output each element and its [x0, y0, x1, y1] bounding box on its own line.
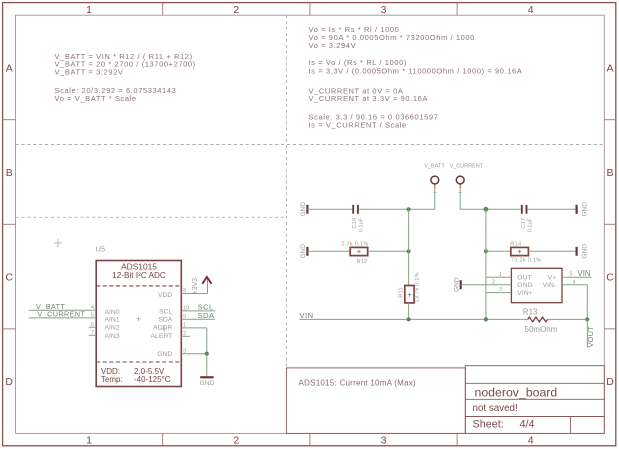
junction row2 at R12 column: [407, 249, 411, 253]
pin stub AIN2: [89, 326, 96, 328]
wire ADDR drop: [206, 328, 208, 354]
wire op-amp VIN- drop: [586, 285, 588, 320]
anchor cross: [54, 239, 62, 247]
wire op-amp VIN- right: [562, 284, 587, 286]
IC U5 ADS1015 body: [96, 261, 181, 387]
frame column tick bottom 3|4: [456, 433, 458, 445]
svg-text:GND: GND: [517, 282, 532, 289]
resistor R11 anchor cross: [408, 293, 412, 297]
svg-text:U5: U5: [96, 245, 106, 254]
svg-text:OUT: OUT: [517, 275, 531, 282]
wire VIN line right: [548, 318, 588, 320]
svg-text:4/4: 4/4: [520, 418, 535, 430]
wire row1 C17 to gnd: [528, 208, 577, 210]
wire op-amp OUT: [486, 276, 512, 278]
wire VDD pin 8: [181, 293, 207, 295]
svg-text:4: 4: [528, 4, 534, 16]
svg-text:A: A: [606, 62, 613, 74]
IC U5 lower dashed divider: [96, 361, 181, 363]
ADDR anchor cross: [161, 326, 167, 332]
wire VIN line left: [300, 318, 528, 320]
svg-text:A: A: [6, 62, 13, 74]
svg-text:V+: V+: [548, 275, 557, 282]
junction ADC ground: [205, 352, 209, 356]
junction row1 at op-amp column: [484, 207, 489, 212]
ground right row2 bar: [575, 247, 577, 256]
wire ADDR pin 1: [181, 327, 207, 329]
wire op-amp VIN+: [486, 292, 512, 294]
svg-text:+3V3: +3V3: [192, 278, 199, 295]
svg-text:ADS1015: Current 10mA (Max): ADS1015: Current 10mA (Max): [299, 378, 417, 387]
wire row2 junction to R14: [486, 250, 511, 252]
frame column tick top 3|4: [456, 3, 458, 16]
svg-text:C: C: [606, 271, 614, 283]
wire VOUT drop: [586, 319, 588, 347]
V_BATT riser anchor cross: [433, 191, 436, 194]
svg-text:noderov_board: noderov_board: [475, 385, 558, 399]
frame row tick left A|B: [3, 119, 16, 121]
pin stub ALERT: [181, 335, 190, 337]
wire V_CURRENT riser: [459, 189, 461, 210]
wire ground drop: [206, 354, 208, 378]
svg-text:C17: C17: [521, 218, 527, 229]
title block line 3: [465, 416, 604, 418]
wire op-amp V+ to VIN label: [562, 276, 592, 278]
svg-text:AIN2: AIN2: [105, 325, 120, 332]
wire row1 gnd to C19: [307, 208, 352, 210]
svg-text:D: D: [606, 376, 614, 388]
frame column tick bottom 2|3: [309, 433, 311, 445]
junction VIN at op-amp column: [484, 317, 488, 321]
IC U5 center anchor cross: [136, 317, 140, 321]
wire VDD riser: [207, 278, 209, 294]
svg-text:SDA: SDA: [198, 311, 215, 320]
svg-text:GND: GND: [157, 351, 172, 358]
wire column R12 down: [408, 209, 410, 285]
wire R11 bottom to VIN line: [408, 303, 410, 320]
svg-text:C: C: [5, 271, 13, 283]
wire V_CURRENT to AIN1: [29, 317, 97, 319]
svg-text:not saved!: not saved!: [473, 403, 518, 414]
wire column op-amp vertical: [485, 209, 487, 319]
title block line 1: [465, 382, 604, 384]
junction VIN at R11: [407, 317, 411, 321]
svg-text:AIN3: AIN3: [105, 333, 120, 340]
resistor R13 shunt zigzag: [528, 317, 548, 322]
svg-text:AIN0: AIN0: [105, 309, 120, 316]
frame row tick left B|C: [3, 223, 16, 225]
svg-text:13.7k 0.1%: 13.7k 0.1%: [415, 272, 421, 302]
junction R14 column row2: [484, 249, 488, 253]
wire GND pin 3: [181, 353, 207, 355]
svg-text:2: 2: [233, 435, 239, 447]
svg-text:ALERT: ALERT: [151, 333, 173, 340]
svg-text:B: B: [606, 167, 613, 179]
wire row2 R12 to junction: [368, 250, 409, 252]
region divider dashed horizontal left half: [16, 216, 287, 218]
svg-text:Is = 3.3V / (0.0005Ohm * 1100: Is = 3.3V / (0.0005Ohm * 110000Ohm / 100…: [309, 67, 523, 76]
resistor R11 body: [405, 286, 414, 303]
frame row tick right A|B: [604, 119, 616, 121]
wire SDA: [181, 318, 215, 320]
region divider dashed horizontal full width: [16, 144, 605, 146]
svg-text:GND: GND: [581, 244, 588, 259]
resistor R12 body: [350, 247, 368, 255]
svg-text:D: D: [5, 376, 13, 388]
frame column tick bottom 1|2: [162, 433, 164, 445]
V_CURRENT riser anchor cross: [459, 191, 462, 194]
svg-text:V_CURRENT: V_CURRENT: [37, 310, 85, 319]
svg-text:V_BATT = 3.292V: V_BATT = 3.292V: [55, 67, 124, 76]
ground right row1 bar: [575, 205, 577, 214]
svg-text:Vo = V_BATT * Scale: Vo = V_BATT * Scale: [55, 94, 137, 103]
title block line 2: [465, 398, 604, 400]
wire row1 C19 to V_BATT riser: [359, 208, 435, 210]
svg-text:GND: GND: [300, 244, 307, 259]
op-amp U8 body: [511, 268, 562, 302]
svg-text:VOUT: VOUT: [586, 326, 595, 347]
svg-text:VIN+: VIN+: [517, 290, 532, 297]
resistor R12 anchor cross: [357, 250, 361, 254]
svg-text:Is = V_CURRENT / Scale: Is = V_CURRENT / Scale: [309, 120, 407, 129]
svg-text:R12: R12: [356, 259, 367, 265]
comment box: [286, 368, 465, 434]
frame row tick right C|D: [604, 328, 616, 330]
svg-text:R14: R14: [510, 241, 521, 247]
svg-text:2: 2: [233, 4, 239, 16]
frame column tick top 1|2: [162, 3, 164, 16]
title block box: [465, 366, 604, 434]
IC U5 upper dashed divider: [96, 285, 181, 287]
svg-text:C19: C19: [352, 218, 358, 229]
svg-text:GND: GND: [453, 277, 460, 292]
svg-text:VDD: VDD: [158, 292, 172, 299]
svg-text:-40-125°C: -40-125°C: [134, 375, 171, 384]
svg-text:Sheet:: Sheet:: [473, 418, 504, 430]
svg-text:Temp:: Temp:: [101, 375, 123, 384]
svg-text:73.2k 0.1%: 73.2k 0.1%: [511, 258, 541, 264]
ground op-amp bar: [460, 280, 462, 289]
flag circle V_CURRENT: [456, 176, 464, 184]
frame row tick left C|D: [3, 328, 16, 330]
svg-text:V_BATT: V_BATT: [424, 163, 445, 169]
junction VOUT: [585, 317, 589, 321]
resistor R14 anchor cross: [518, 250, 522, 254]
svg-text:3: 3: [381, 435, 387, 447]
wire row2 R14 to gnd: [528, 250, 576, 252]
region divider dashed vertical: [285, 15, 287, 368]
svg-text:1: 1: [86, 4, 92, 16]
svg-text:GND: GND: [581, 202, 588, 217]
svg-text:0.1uF: 0.1uF: [527, 217, 533, 232]
power +3V3 arrow: [202, 277, 211, 284]
svg-text:12-Bit I²C ADC: 12-Bit I²C ADC: [112, 271, 166, 280]
title block sheet cell divider: [569, 417, 571, 434]
svg-text:VIN: VIN: [578, 269, 591, 278]
ground left row1 bar: [306, 205, 308, 214]
wire SCL: [181, 310, 215, 312]
junction row1 at R12 column: [407, 207, 411, 211]
frame column tick top 2|3: [309, 3, 311, 16]
svg-text:R13: R13: [523, 307, 538, 316]
wire row2 gnd to R12: [307, 250, 350, 252]
wire row1 V_CURRENT to C17: [460, 208, 520, 210]
svg-text:Vo = 3.294V: Vo = 3.294V: [309, 41, 357, 50]
flag circle V_BATT: [431, 176, 439, 184]
svg-text:1: 1: [86, 435, 92, 447]
capacitor C19 plates: [353, 205, 358, 214]
svg-text:0.1uF: 0.1uF: [359, 217, 365, 232]
svg-text:2.7k 0.1%: 2.7k 0.1%: [341, 242, 368, 248]
svg-text:GND: GND: [300, 202, 307, 217]
svg-text:4: 4: [528, 435, 534, 447]
svg-text:V_CURRENT at 3.3V = 90.16A: V_CURRENT at 3.3V = 90.16A: [309, 94, 428, 103]
ground GND below ADC: [200, 376, 213, 378]
svg-text:R11: R11: [398, 287, 404, 298]
capacitor C17 plates: [522, 205, 527, 214]
svg-text:VIN-: VIN-: [543, 282, 557, 289]
svg-text:3: 3: [381, 4, 387, 16]
frame row tick right B|C: [604, 223, 616, 225]
svg-text:SDA: SDA: [158, 317, 172, 324]
svg-text:GND: GND: [199, 380, 214, 387]
svg-text:V_CURRENT: V_CURRENT: [449, 163, 483, 169]
wire op-amp GND pin: [461, 284, 512, 286]
svg-text:SCL: SCL: [159, 308, 172, 315]
svg-text:AIN1: AIN1: [105, 317, 120, 324]
wire V_BATT riser: [434, 189, 436, 210]
wire V_BATT to AIN0: [29, 309, 97, 311]
svg-text:ADDR: ADDR: [153, 325, 172, 332]
svg-text:VIN: VIN: [300, 311, 314, 320]
resistor R14 body: [511, 247, 529, 255]
svg-text:50mOhm: 50mOhm: [525, 325, 558, 334]
ground left row2 bar: [306, 247, 308, 256]
pin stub AIN3: [89, 334, 96, 336]
svg-text:B: B: [6, 167, 13, 179]
